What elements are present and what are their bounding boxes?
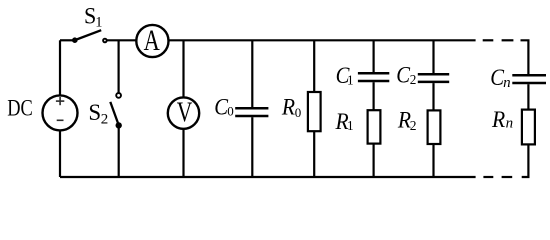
capacitor C1 — [358, 73, 389, 81]
svg-text:0: 0 — [227, 104, 234, 119]
wire R2 to bottom rail — [432, 144, 434, 177]
wire top-right corner to Cn — [521, 40, 529, 74]
svg-text:0: 0 — [295, 105, 302, 120]
svg-text:2: 2 — [410, 72, 417, 87]
wire top rail dash 1 — [483, 39, 494, 41]
wire bottom rail main — [60, 176, 476, 178]
svg-text:R: R — [281, 95, 296, 121]
wire branch 1 from top rail — [373, 40, 375, 72]
wire C1 to R1 — [373, 82, 375, 110]
wire top rail: ammeter to dashed section — [169, 39, 476, 41]
svg-text:1: 1 — [347, 73, 354, 88]
wire R1 to bottom rail — [373, 144, 375, 177]
wire Cn to Rn — [527, 84, 529, 109]
wire C0 branch to bottom rail — [251, 117, 253, 177]
capacitor C0 — [235, 108, 268, 116]
capacitor Cn — [512, 75, 546, 83]
wire C2 to R2 — [432, 83, 434, 110]
resistor R1 — [368, 110, 381, 143]
ammeter A — [136, 25, 168, 57]
resistor R0 — [308, 92, 321, 131]
capacitor C2 — [418, 74, 449, 82]
wire S2 branch to bottom rail — [118, 128, 120, 177]
wire bottom rail dash 2 — [502, 176, 513, 178]
wire voltmeter branch from top rail — [182, 40, 184, 97]
wire C0 branch from top rail — [251, 40, 253, 107]
voltmeter V — [168, 97, 199, 128]
resistor Rn — [522, 110, 535, 145]
svg-text:R: R — [491, 107, 506, 133]
switch S2 — [110, 93, 121, 128]
svg-text:C: C — [396, 63, 411, 88]
svg-text:2: 2 — [410, 118, 417, 133]
label C0 — [214, 95, 234, 120]
svg-text:2: 2 — [101, 112, 109, 128]
svg-text:A: A — [144, 25, 161, 57]
label Cn — [490, 65, 510, 91]
wire top rail dash 2 — [502, 39, 514, 41]
svg-text:DC: DC — [7, 96, 33, 122]
label C1 — [336, 63, 354, 88]
label Rn — [491, 107, 513, 133]
label R1 — [335, 109, 354, 135]
DC source B1 — [43, 95, 78, 130]
switch S1 — [73, 30, 107, 42]
wire R0 branch from top rail — [313, 40, 315, 92]
svg-text:S: S — [88, 100, 101, 126]
resistor R2 — [428, 110, 441, 144]
svg-text:n: n — [503, 75, 511, 91]
svg-text:n: n — [506, 115, 513, 131]
wire bottom rail dash 1 — [483, 176, 493, 178]
label S1 — [84, 4, 103, 31]
label S2 — [88, 100, 108, 128]
svg-text:1: 1 — [95, 15, 102, 31]
label R2 — [397, 108, 416, 134]
svg-text:V: V — [177, 97, 193, 129]
wire left edge top (DC to top rail) — [59, 40, 61, 95]
wire voltmeter branch to bottom rail — [182, 129, 184, 177]
wire bottom-right corner from Rn — [522, 144, 529, 177]
wire top rail: S1 to ammeter — [107, 39, 136, 41]
label R0 — [281, 95, 301, 121]
svg-text:1: 1 — [347, 118, 354, 133]
wire branch 2 from top rail — [432, 40, 434, 73]
wire top rail: DC top corner to S1 left terminal — [60, 39, 73, 41]
wire R0 branch to bottom rail — [313, 131, 315, 177]
label C2 — [396, 63, 416, 88]
wire S2 branch from top rail — [117, 40, 119, 92]
wire left edge bottom (DC to bottom rail) — [59, 130, 61, 177]
